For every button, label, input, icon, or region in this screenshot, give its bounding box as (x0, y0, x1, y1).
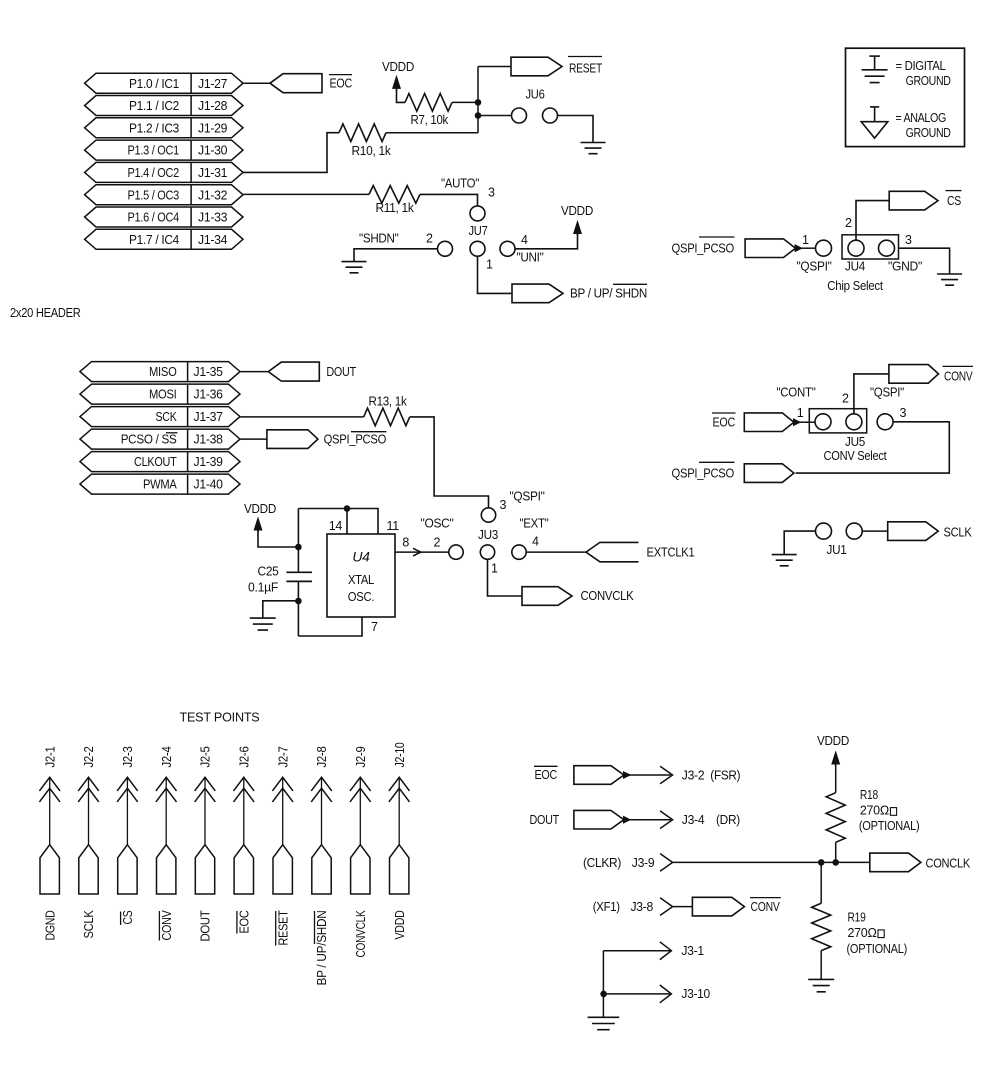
pin 8 wire with arrow (395, 551, 449, 553)
net flag QSPI_PCSO to JU5 (output) (744, 464, 794, 483)
svg-text:(OPTIONAL): (OPTIONAL) (847, 942, 908, 956)
jumper JU7 pin 3 (470, 206, 485, 221)
wire C25 to ground (263, 601, 299, 618)
jumper JU4 pin 1 (816, 240, 832, 256)
svg-text:J1-35: J1-35 (194, 365, 224, 379)
overline CS test point (120, 912, 122, 926)
header pin J1-35 (MISO) (80, 362, 240, 382)
resistor R10 (339, 124, 386, 142)
svg-text:J1-37: J1-37 (194, 410, 224, 424)
svg-text:1: 1 (802, 233, 809, 247)
wire VDDD to R7 (397, 88, 406, 103)
overline CONV test point (158, 911, 160, 941)
header pin J1-40 (PWMA) (80, 474, 240, 494)
svg-text:C25: C25 (258, 565, 279, 579)
wire JU6 to ground (558, 116, 594, 143)
svg-text:3: 3 (500, 498, 507, 512)
svg-text:P1.5 / OC3: P1.5 / OC3 (128, 188, 180, 202)
net flag BP/UP/SHDN (output) (512, 284, 563, 303)
svg-text:(DR): (DR) (716, 813, 740, 827)
resistor R11 (369, 186, 420, 204)
wire R13 to JU3 pin 3 (410, 417, 489, 508)
svg-text:R19: R19 (848, 910, 866, 924)
wire VDDD to R18 (835, 763, 837, 793)
jumper JU7 pin 2 (438, 241, 453, 256)
wire node to RESET flag (478, 66, 511, 68)
junction dot pin 14 (344, 505, 351, 512)
svg-text:"QSPI": "QSPI" (797, 260, 832, 274)
svg-text:DOUT: DOUT (199, 910, 213, 942)
svg-text:EXTCLK1: EXTCLK1 (647, 545, 695, 559)
wire J1-32 to R11 (243, 193, 369, 195)
net flag EXTCLK1 (input, open fork) (586, 542, 639, 561)
header pin J1-27 (P1.0 / IC1) (85, 73, 243, 93)
header pin J1-31 (P1.4 / OC2) (85, 162, 243, 182)
svg-text:R13, 1k: R13, 1k (369, 395, 408, 409)
svg-text:SCLK: SCLK (944, 525, 973, 539)
svg-text:J1-39: J1-39 (194, 455, 224, 469)
svg-text:J1-31: J1-31 (198, 166, 228, 180)
svg-text:2x20 HEADER: 2x20 HEADER (10, 306, 81, 320)
wire U4 supply rail lower (297, 581, 299, 636)
wire JU4 pin 3 to ground (899, 248, 950, 274)
pin 14 stub (346, 509, 348, 535)
svg-text:VDDD: VDDD (244, 502, 276, 516)
svg-text:DOUT: DOUT (530, 813, 560, 827)
junction dot JU6 node (475, 112, 482, 119)
svg-text:RESET: RESET (276, 910, 290, 946)
svg-text:P1.1 / IC2: P1.1 / IC2 (129, 99, 179, 113)
svg-text:GROUND: GROUND (906, 74, 951, 88)
wire JU5 pin 2 to CONV flag (854, 374, 889, 414)
net flag QSPI_PCSO (output, J1-38) (267, 430, 318, 449)
header pin J1-38 (PCSO / SS) (80, 429, 240, 449)
svg-text:RESET: RESET (569, 62, 603, 76)
svg-text:DOUT: DOUT (326, 365, 356, 379)
svg-text:J1-40: J1-40 (194, 478, 224, 492)
net flag QSPI_PCSO to JU4 (output) (745, 239, 795, 258)
svg-text:"QSPI": "QSPI" (510, 490, 545, 504)
svg-text:PCSO / SS: PCSO / SS (121, 433, 177, 447)
svg-text:J1-27: J1-27 (198, 77, 228, 91)
net flag EOC to J3-2 (output) (574, 766, 624, 785)
wire R10 to node (386, 132, 478, 134)
svg-text:EOC: EOC (237, 910, 251, 933)
jumper JU3 center pin (480, 545, 494, 559)
jumper JU5 body (809, 409, 866, 433)
jumper JU5 pin 1 (815, 414, 831, 430)
digital ground at JU6 (581, 143, 606, 154)
svg-text:P1.4 / OC2: P1.4 / OC2 (128, 166, 180, 180)
wire J3-10 (604, 993, 671, 995)
wire JU1 to ground (784, 531, 815, 555)
svg-text:R7, 10k: R7, 10k (411, 113, 449, 127)
svg-text:"EXT": "EXT" (520, 517, 549, 531)
svg-text:J2-10: J2-10 (393, 742, 407, 767)
svg-text:R11, 1k: R11, 1k (376, 201, 415, 215)
svg-text:BP / UP/ SHDN: BP / UP/ SHDN (570, 287, 647, 301)
svg-text:2: 2 (845, 216, 852, 230)
jumper JU6 pin 2 (543, 108, 558, 123)
wire node to JU6 pin 1 (478, 115, 512, 117)
pin J3-1 chevron (660, 942, 672, 960)
svg-text:J2-2: J2-2 (82, 746, 96, 767)
svg-text:CONVCLK: CONVCLK (581, 589, 635, 603)
net flag EOC (input) (270, 74, 322, 93)
pin 7 stub (298, 617, 362, 636)
digital ground at JU1 (772, 555, 797, 566)
svg-text:SCK: SCK (156, 410, 178, 424)
wire EOC flag to J3-2 arrow (629, 774, 671, 776)
svg-text:CONV: CONV (751, 900, 781, 914)
net flag CONCLK (output) (870, 853, 921, 872)
svg-text:7: 7 (371, 620, 378, 634)
resistor R18 (826, 793, 845, 843)
svg-text:J1-34: J1-34 (198, 233, 228, 247)
svg-text:JU7: JU7 (469, 224, 488, 238)
svg-text:2: 2 (426, 232, 433, 246)
digital ground at R19 (808, 979, 834, 991)
wire J3-8 to CONV flag (673, 906, 693, 908)
svg-text:J3-9: J3-9 (632, 856, 655, 870)
svg-text:JU5: JU5 (845, 435, 865, 449)
svg-text:VDDD: VDDD (382, 60, 414, 74)
svg-text:"AUTO": "AUTO" (441, 177, 479, 191)
svg-text:GROUND: GROUND (906, 126, 951, 140)
svg-text:J3-1: J3-1 (681, 944, 704, 958)
junction dot VDDD rail (295, 544, 302, 551)
svg-text:PWMA: PWMA (143, 478, 177, 492)
svg-text:"SHDN": "SHDN" (359, 232, 399, 246)
svg-text:JU1: JU1 (827, 543, 847, 557)
svg-text:VDDD: VDDD (817, 734, 849, 748)
svg-text:270Ω: 270Ω (848, 926, 877, 940)
header pin J1-37 (SCK) (80, 407, 240, 427)
header pin J1-28 (P1.1 / IC2) (85, 96, 243, 116)
svg-text:CS: CS (947, 194, 961, 208)
svg-text:J2-9: J2-9 (354, 746, 368, 767)
svg-text:3: 3 (905, 233, 912, 247)
svg-text:J2-1: J2-1 (43, 746, 57, 767)
svg-text:R10, 1k: R10, 1k (352, 144, 392, 158)
wire node to R19 (820, 862, 822, 903)
svg-text:SCLK: SCLK (82, 910, 96, 939)
svg-text:= DIGITAL: = DIGITAL (896, 59, 946, 73)
svg-text:J1-30: J1-30 (198, 144, 228, 158)
svg-text:EOC: EOC (713, 416, 736, 430)
svg-text:(FSR): (FSR) (710, 769, 740, 783)
jumper JU5 pin 3 (877, 414, 893, 430)
net flag CONV (output) (889, 365, 939, 384)
net flag RESET (output) (511, 57, 562, 76)
jumper JU3 pin 2 (449, 545, 463, 559)
wire J1-35 to DOUT flag (240, 371, 268, 373)
overline SS on PCSO / SS (166, 432, 178, 434)
op-amp U4 box (XTAL OSC) (327, 534, 395, 617)
svg-text:P1.6 / OC4: P1.6 / OC4 (128, 211, 180, 225)
svg-text:QSPI_PCSO: QSPI_PCSO (672, 467, 735, 481)
jumper JU5 pin 2 (846, 414, 862, 430)
svg-text:CONCLK: CONCLK (926, 856, 971, 870)
digital ground at JU7 pin 2 (342, 262, 367, 273)
svg-text:EOC: EOC (535, 768, 558, 782)
legend digital ground symbol (874, 56, 876, 70)
svg-text:270Ω: 270Ω (860, 804, 889, 818)
wire JU7 pin 1 to BP flag (478, 256, 513, 293)
svg-text:J2-3: J2-3 (121, 746, 135, 767)
header pin J1-32 (P1.5 / OC3) (85, 185, 243, 205)
header pin J1-30 (P1.3 / OC1) (85, 140, 243, 160)
jumper JU4 pin 2 (848, 240, 864, 256)
jumper JU3 pin 4 (512, 545, 526, 559)
svg-text:BP / UP/SHDN: BP / UP/SHDN (315, 910, 329, 985)
svg-text:(XF1): (XF1) (593, 900, 620, 914)
svg-text:1: 1 (797, 406, 804, 420)
resistor R19 (812, 903, 831, 950)
svg-text:J1-32: J1-32 (198, 188, 228, 202)
svg-text:(CLKR): (CLKR) (583, 856, 621, 870)
net flag CONV (J3-8, output) (692, 897, 744, 916)
svg-text:CS: CS (121, 911, 135, 925)
pin J3-8 chevron (660, 898, 673, 916)
svg-text:J1-29: J1-29 (198, 121, 228, 135)
wire J1-38 to QSPI_PCSO flag (240, 438, 267, 440)
jumper JU6 pin 1 (512, 108, 527, 123)
svg-text:2: 2 (842, 392, 849, 406)
jumper JU4 body (842, 235, 899, 259)
jumper JU1 pin 1 (816, 523, 832, 539)
svg-text:J3-4: J3-4 (682, 813, 705, 827)
jumper JU3 pin 3 (481, 508, 495, 522)
junction dot R18 node (832, 859, 839, 866)
junction dot C25 ground (295, 598, 302, 605)
wire ground riser J3 (602, 951, 604, 1018)
svg-text:3: 3 (488, 186, 495, 200)
svg-text:P1.0 / IC1: P1.0 / IC1 (129, 77, 179, 91)
svg-text:CONV: CONV (944, 370, 973, 384)
wire J1-27 to EOC flag (243, 82, 270, 84)
svg-text:J2-6: J2-6 (237, 746, 251, 767)
svg-text:EOC: EOC (330, 77, 353, 91)
header pin J1-34 (P1.7 / IC4) (85, 229, 243, 249)
svg-text:TEST POINTS: TEST POINTS (180, 710, 260, 724)
wire JU4 pin 2 to CS flag (856, 201, 889, 241)
svg-text:1: 1 (486, 258, 493, 272)
header pin J1-39 (CLKOUT) (80, 452, 240, 472)
net flag DOUT (input) (268, 362, 319, 381)
svg-text:2: 2 (434, 536, 441, 550)
svg-text:J1-38: J1-38 (194, 433, 224, 447)
junction dot R19 node (818, 859, 825, 866)
pin J3-10 chevron (660, 985, 672, 1003)
wire R7 to node (452, 101, 478, 103)
svg-text:CONVCLK: CONVCLK (354, 910, 368, 958)
capacitor C25 (286, 571, 312, 573)
svg-text:CLKOUT: CLKOUT (134, 455, 177, 469)
net flag SCLK (output) (888, 522, 939, 541)
svg-text:(OPTIONAL): (OPTIONAL) (859, 819, 920, 833)
svg-text:0.1µF: 0.1µF (248, 581, 279, 595)
svg-text:MISO: MISO (149, 365, 177, 379)
svg-text:14: 14 (329, 519, 343, 533)
svg-text:J1-33: J1-33 (198, 211, 228, 225)
header pin J1-29 (P1.2 / IC3) (85, 118, 243, 138)
svg-text:3: 3 (900, 406, 907, 420)
junction dot J3-10 (600, 991, 607, 998)
wire EOC flag to JU5 pin 1 (799, 421, 815, 423)
wire JU7 pin 4 to VDDD (515, 233, 578, 249)
net flag EOC to JU5 (output) (744, 413, 794, 432)
jumper JU7 pin 4 (500, 241, 515, 256)
svg-text:J2-7: J2-7 (276, 746, 290, 767)
overline RESET test point (275, 911, 277, 946)
svg-text:11: 11 (387, 519, 400, 533)
svg-text:J3-8: J3-8 (631, 900, 654, 914)
resistor R13 (364, 408, 410, 426)
svg-text:XTAL: XTAL (348, 573, 374, 587)
svg-text:JU6: JU6 (526, 87, 545, 101)
wire JU5 pin 3 to QSPI_PCSO flag (796, 422, 950, 473)
svg-text:OSC.: OSC. (348, 590, 375, 604)
wire R18 to node (835, 842, 837, 862)
jumper JU4 pin 3 (879, 240, 895, 256)
svg-text:= ANALOG: = ANALOG (896, 111, 947, 125)
svg-text:VDDD: VDDD (393, 910, 407, 939)
wire JU7 pin 2 to ground (354, 249, 438, 262)
junction dot R7 node (475, 99, 482, 106)
wire JU3 pin 4 to EXTCLK1 (526, 551, 586, 553)
svg-text:Chip Select: Chip Select (827, 279, 883, 293)
net flag CS (output) (889, 191, 938, 210)
node RESET vertical (477, 67, 479, 134)
svg-text:"UNI": "UNI" (517, 251, 544, 265)
svg-text:J1-28: J1-28 (198, 99, 228, 113)
wire U4 supply rail upper (297, 509, 299, 573)
svg-text:"OSC": "OSC" (421, 517, 454, 531)
digital ground at C25 (250, 618, 276, 630)
wire rail top to pins 14/11 (298, 509, 378, 535)
digital ground at J3 (588, 1017, 620, 1029)
svg-text:JU4: JU4 (845, 260, 865, 274)
jumper JU1 pin 2 (846, 523, 862, 539)
svg-text:QSPI_PCSO: QSPI_PCSO (672, 242, 735, 256)
svg-text:MOSI: MOSI (149, 388, 177, 402)
pin J3-9 chevron (660, 854, 673, 872)
net flag CONVCLK (output) (522, 587, 572, 606)
svg-text:P1.7 / IC4: P1.7 / IC4 (129, 233, 179, 247)
wire R19 to ground (820, 951, 822, 980)
header pin J1-36 (MOSI) (80, 384, 240, 404)
net flag DOUT to J3-4 (output) (574, 810, 624, 829)
wire R11 to JU7 pin 3 (420, 194, 478, 206)
svg-text:"CONT": "CONT" (777, 386, 816, 400)
svg-text:DGND: DGND (43, 910, 57, 940)
svg-text:CONV Select: CONV Select (824, 449, 888, 463)
legend analog ground symbol (874, 107, 876, 122)
digital ground at JU4 (937, 274, 962, 285)
svg-text:"QSPI": "QSPI" (870, 386, 904, 400)
svg-text:4: 4 (521, 233, 528, 247)
svg-text:J3-2: J3-2 (682, 769, 705, 783)
svg-text:8: 8 (402, 536, 409, 550)
wire flag to JU4 pin 1 (801, 247, 816, 249)
svg-text:"GND": "GND" (888, 260, 922, 274)
header pin J1-33 (P1.6 / OC4) (85, 207, 243, 227)
svg-text:4: 4 (532, 535, 539, 549)
svg-text:JU3: JU3 (478, 528, 498, 542)
svg-text:J1-36: J1-36 (194, 388, 224, 402)
overline SHDN test point (314, 911, 316, 944)
legend box (846, 48, 965, 146)
svg-text:J2-8: J2-8 (315, 746, 329, 767)
svg-text:U4: U4 (352, 549, 370, 565)
wire J3-1 (603, 950, 671, 952)
svg-text:QSPI_PCSO: QSPI_PCSO (324, 433, 387, 447)
svg-text:J3-10: J3-10 (681, 987, 710, 1001)
svg-text:P1.2 / IC3: P1.2 / IC3 (129, 121, 179, 135)
wire J1-31 to R10 (243, 133, 339, 173)
svg-text:R18: R18 (860, 788, 878, 802)
jumper JU7 center pin (470, 241, 485, 256)
resistor R7 (405, 94, 452, 112)
overline EOC test point (236, 911, 238, 934)
svg-text:1: 1 (491, 562, 498, 576)
svg-text:CONV: CONV (160, 910, 174, 941)
svg-text:J2-5: J2-5 (199, 746, 213, 767)
svg-text:P1.3 / OC1: P1.3 / OC1 (128, 144, 180, 158)
wire DOUT flag to J3-4 arrow (629, 819, 671, 821)
svg-text:VDDD: VDDD (561, 204, 593, 218)
wire J3-9 to CONCLK node (673, 861, 870, 863)
wire JU1 to SCLK flag (862, 530, 888, 532)
wire J1-37 to R13 (240, 416, 364, 418)
svg-text:J2-4: J2-4 (160, 746, 174, 767)
wire JU3 pin 1 to CONVCLK (488, 559, 523, 596)
wire VDDD to rail (258, 529, 298, 547)
